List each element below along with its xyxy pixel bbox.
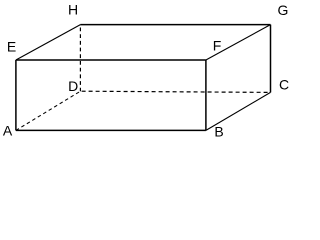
wire hidden edge DC (dashed horizontal) [82, 91, 271, 92]
wire hidden edge AD (dashed slant) [16, 91, 81, 130]
svg-text:H: H [68, 2, 78, 18]
svg-text:A: A [3, 123, 13, 139]
wire edge EA (left front vertical) [15, 60, 17, 130]
wire edge EH (top left slant) [16, 25, 81, 60]
svg-text:F: F [213, 38, 222, 54]
wire edge FG (top right slant) [206, 25, 271, 60]
svg-text:C: C [279, 77, 289, 93]
svg-text:D: D [68, 78, 78, 94]
wire edge AB (front bottom) [16, 129, 206, 131]
wire edge BC (bottom right slant) [206, 92, 271, 130]
svg-text:G: G [278, 2, 289, 18]
svg-text:B: B [214, 124, 223, 140]
wire edge EF (front top) [16, 59, 206, 61]
wire edge HG (back top) [80, 24, 270, 26]
wire edge FB (right front vertical) [205, 60, 207, 130]
wire edge GC (right back vertical) [270, 25, 272, 93]
wire hidden edge HD (dashed vertical) [79, 28, 81, 92]
svg-text:E: E [7, 39, 16, 55]
